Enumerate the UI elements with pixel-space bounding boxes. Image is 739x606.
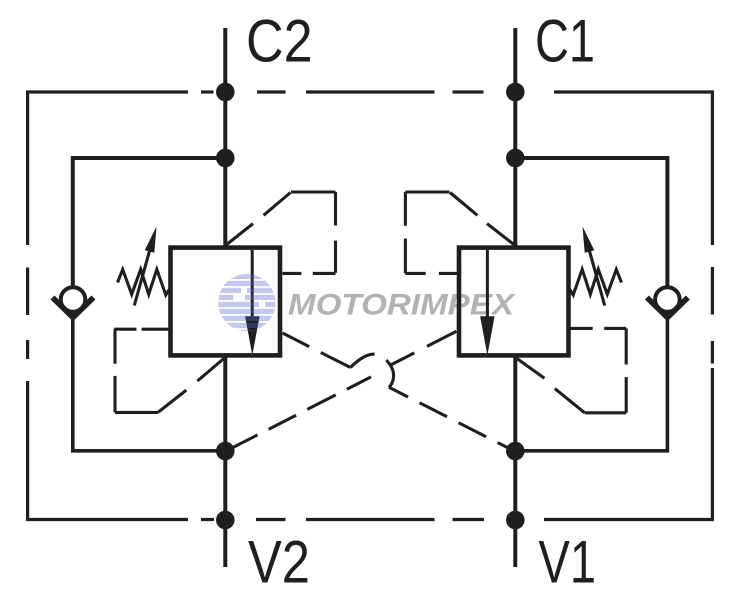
node V1 pilot junction xyxy=(506,442,525,461)
wire C2 port line xyxy=(223,28,227,248)
flow path line left valve xyxy=(251,250,254,322)
enclosure boundary top chain line xyxy=(28,92,713,245)
pilot line A crossing from V2 node to right valve xyxy=(228,331,457,450)
flow arrow left valve xyxy=(245,316,260,355)
node C1 branch junction xyxy=(506,149,525,168)
svg-text:V2: V2 xyxy=(248,529,310,596)
pilot line B crossing from left valve to V1 node xyxy=(283,333,514,451)
crossing hop break marks xyxy=(350,354,393,387)
wire V2 port line xyxy=(223,355,227,567)
enclosure boundary left chain line xyxy=(28,268,188,520)
svg-text:V1: V1 xyxy=(539,529,597,596)
valve envelope right counterbalance valve xyxy=(459,248,569,356)
check valve CV1 seat xyxy=(647,298,688,318)
pilot line loop lower right valve xyxy=(516,328,627,412)
enclosure boundary bottom chain line xyxy=(201,518,484,521)
flow arrow right valve xyxy=(480,316,495,355)
node V2 pilot junction xyxy=(216,442,235,461)
wire C1 port line xyxy=(513,28,517,248)
adjustment arrow left valve xyxy=(134,227,156,306)
valve envelope left counterbalance valve xyxy=(171,248,281,356)
wire left check valve to V2 node xyxy=(73,316,226,451)
wire V1 port line xyxy=(513,355,517,567)
adjustable spring left valve xyxy=(118,269,171,295)
pilot line loop upper right valve xyxy=(405,192,514,273)
wire C1 branch to right check valve xyxy=(515,158,667,288)
flow path line right valve xyxy=(486,250,489,322)
check valve CV1 circle xyxy=(655,287,680,312)
pilot line loop lower left valve xyxy=(114,329,225,412)
wire right check valve to V1 node xyxy=(515,316,667,451)
node C2 branch junction xyxy=(216,149,235,168)
check valve CV2 seat xyxy=(53,298,94,318)
adjustable spring right valve xyxy=(569,269,622,295)
svg-text:C2: C2 xyxy=(246,8,313,75)
wire C2 branch to left check valve xyxy=(73,158,226,288)
pilot line loop upper left valve xyxy=(226,192,336,273)
svg-text:C1: C1 xyxy=(535,8,595,75)
node V1 boundary junction xyxy=(506,511,525,530)
adjustment arrow right valve xyxy=(583,227,605,306)
check valve CV2 circle xyxy=(61,287,86,312)
enclosure boundary right chain line xyxy=(544,267,712,520)
node C1 boundary junction xyxy=(506,83,525,102)
node V2 boundary junction xyxy=(216,511,235,530)
watermark globe xyxy=(218,274,276,335)
node C2 boundary junction xyxy=(216,83,235,102)
